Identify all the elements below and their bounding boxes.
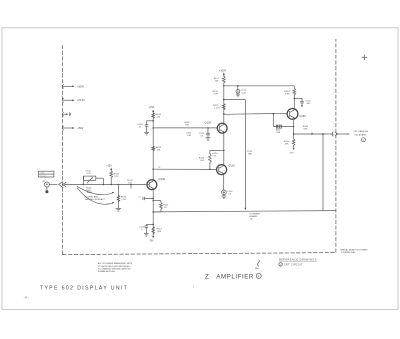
svg-text:CKT BOARD: CKT BOARD [354,133,367,136]
svg-text:47K: 47K [285,143,289,145]
svg-text:+300V: +300V [77,85,85,88]
svg-text:& WIRING DIAG: & WIRING DIAG [341,251,356,254]
svg-text:CRT GRID: CRT GRID [40,176,47,178]
svg-text:C?: C? [138,196,140,198]
svg-text:5-25: 5-25 [241,93,246,95]
svg-text:Q150: Q150 [299,114,306,118]
svg-text:1.21K: 1.21K [214,107,220,109]
svg-text:GAIN ADJ INTERACT: GAIN ADJ INTERACT [85,198,106,201]
svg-text:-150V: -150V [77,127,84,130]
svg-text:7.5K: 7.5K [121,199,126,201]
svg-text:AMPLIFIER: AMPLIFIER [216,274,254,281]
svg-text:3: 3 [363,140,364,142]
svg-text:SIGNAL APPLIED.: SIGNAL APPLIED. [98,270,116,273]
svg-text:4.7K: 4.7K [213,94,218,96]
svg-text:1.5K: 1.5K [200,160,205,162]
svg-text:3.9K: 3.9K [285,93,290,95]
svg-text:15K: 15K [157,149,161,151]
svg-text:2: 2 [258,274,260,278]
svg-text:c: c [229,115,230,117]
svg-text:TO CHASSIS GROUND WITH NO: TO CHASSIS GROUND WITH NO [98,267,131,270]
svg-text:+15.5V: +15.5V [77,99,85,102]
svg-text:VTVM FROM POINT INDICATED: VTVM FROM POINT INDICATED [98,265,130,268]
svg-text:+15V: +15V [149,106,155,109]
svg-text:1: 1 [280,264,281,266]
svg-text:5-25: 5-25 [86,173,91,175]
svg-text:REFERENCE DRAWINGS: REFERENCE DRAWINGS [279,258,317,261]
svg-text:56K: 56K [304,128,308,130]
svg-text:ALL VOLTAGES MEASURED WITH: ALL VOLTAGES MEASURED WITH [98,262,133,265]
svg-text:FER: FER [277,132,281,134]
svg-text:-75V: -75V [149,240,154,242]
svg-text:Q120: Q120 [204,121,211,125]
svg-text:TYPE 602 DISPLAY UNIT: TYPE 602 DISPLAY UNIT [40,286,128,292]
svg-text:Z: Z [205,274,209,281]
svg-text:+300V: +300V [219,69,227,72]
svg-text:CRT CIRCUIT: CRT CIRCUIT [284,265,303,267]
svg-text:10K: 10K [185,125,189,127]
svg-text:-6-: -6- [24,296,30,300]
svg-text:15K: 15K [215,80,219,82]
svg-text:Q100: Q100 [159,177,166,181]
svg-text:2.7K: 2.7K [114,176,119,178]
svg-text:Q110: Q110 [228,163,235,167]
svg-text:-75V: -75V [289,152,294,154]
svg-text:+15V: +15V [106,165,112,168]
svg-text:CRT CATHODE: CRT CATHODE [353,130,368,133]
svg-text:DC SHIFT AND: DC SHIFT AND [84,195,99,198]
